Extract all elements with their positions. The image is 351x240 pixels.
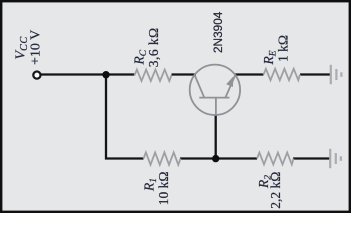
label RE bbox=[261, 50, 279, 65]
transistor emitter lead with arrow bbox=[225, 75, 235, 98]
resistor R2 (zigzag) bbox=[257, 153, 294, 165]
ground (bottom right) bbox=[330, 149, 341, 168]
label VCC bbox=[13, 36, 30, 59]
svg-text:3,6 kΩ: 3,6 kΩ bbox=[146, 27, 161, 67]
transistor base stem bbox=[215, 98, 217, 116]
node: junction of Vcc rail and R1 branch bbox=[102, 71, 109, 78]
resistor RE (zigzag) bbox=[264, 69, 301, 80]
wire: R2 to bottom ground bbox=[293, 157, 330, 159]
wire: vertical from top junction down to bottom rail bbox=[106, 75, 144, 159]
wire: Rc to transistor collector bbox=[172, 73, 197, 75]
wire: transistor base down to bottom junction bbox=[215, 114, 217, 159]
ground (top right) bbox=[331, 65, 342, 84]
resistor R1 (zigzag) bbox=[144, 152, 181, 164]
transistor Q1 2N3904 body circle bbox=[190, 65, 240, 115]
svg-text:2,2 kΩ: 2,2 kΩ bbox=[268, 172, 283, 209]
wire: transistor emitter to RE bbox=[235, 73, 264, 75]
label RC bbox=[132, 49, 150, 65]
terminal Vcc (open circle) bbox=[33, 72, 40, 79]
label 2N3904 bbox=[211, 11, 225, 53]
value 1 kOhm bbox=[276, 35, 291, 62]
node: junction of base wire with R1/R2 rail bbox=[212, 155, 219, 162]
transistor base bar bbox=[199, 97, 229, 99]
svg-text:1 kΩ: 1 kΩ bbox=[276, 35, 291, 62]
wire: R1 to bottom junction and on to R2 bbox=[180, 157, 257, 159]
transistor collector lead bbox=[194, 74, 204, 97]
value 10 kOhm bbox=[156, 172, 171, 206]
value 3,6 kOhm bbox=[146, 27, 161, 67]
label R2 bbox=[256, 175, 274, 189]
svg-text:10 kΩ: 10 kΩ bbox=[156, 172, 171, 206]
svg-text:2N3904: 2N3904 bbox=[211, 11, 225, 53]
resistor RC (zigzag) bbox=[135, 70, 172, 81]
svg-text:+10 V: +10 V bbox=[29, 30, 44, 65]
wire: Vcc terminal to Rc bbox=[41, 73, 135, 75]
value 2,2 kOhm bbox=[268, 172, 283, 209]
label R1 bbox=[142, 178, 160, 192]
label +10 V bbox=[29, 30, 44, 65]
wire: RE to top ground bbox=[300, 73, 330, 75]
